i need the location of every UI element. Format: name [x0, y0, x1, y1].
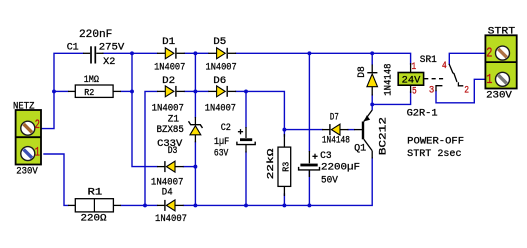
svg-text:1: 1 [35, 144, 40, 159]
diode D2 [157, 86, 185, 97]
svg-text:2: 2 [464, 85, 469, 96]
wire Z1 anode down to node D [194, 142, 196, 167]
relay SR1 mechanical dashed link [424, 78, 443, 80]
wire bottom rail C3 to Q1 collector [309, 158, 372, 205]
svg-text:1N4007: 1N4007 [206, 62, 237, 73]
connector STRT [485, 35, 516, 88]
node C junction top [193, 51, 197, 55]
svg-text:5: 5 [412, 87, 417, 98]
screw terminal NETZ pin2 [21, 121, 35, 135]
wire D2 anode down to bottom rail [145, 91, 157, 205]
screw terminal STRT pin1 [496, 72, 510, 86]
wire C2 node right and down to D7 node [246, 91, 284, 129]
capacitor C3 polarized [299, 151, 320, 177]
wire C1 right to node A [103, 52, 132, 54]
svg-text:4: 4 [442, 61, 447, 72]
diode D7 [322, 124, 349, 135]
label plus sign of C3 [312, 154, 317, 159]
node D bottom junction [193, 203, 197, 207]
svg-text:D6: D6 [213, 76, 226, 87]
node C2 top junction [244, 89, 248, 93]
node D8 top junction [370, 51, 374, 55]
relay SR1 contact terminal pin2 [458, 82, 463, 86]
wire D2 cathode to node C [185, 90, 196, 92]
wire C3 node to D8 node [309, 52, 372, 54]
svg-text:1MΩ: 1MΩ [84, 75, 99, 86]
svg-text:C2: C2 [221, 123, 231, 134]
wire node D down to bottom rail [194, 167, 196, 206]
svg-text:50V: 50V [321, 176, 338, 187]
diode D1 [157, 48, 185, 59]
wire R2 left to left rail [54, 90, 68, 92]
svg-text:275V: 275V [99, 42, 125, 53]
wire C2 minus to bottom rail [245, 152, 247, 205]
svg-text:D5: D5 [213, 37, 226, 48]
wire bottom rail node D to C2 minus [195, 204, 246, 206]
screw terminal NETZ pin1 [21, 147, 35, 161]
svg-text:2200µF: 2200µF [321, 163, 360, 174]
svg-text:BZX85: BZX85 [157, 125, 184, 136]
wire D1 cathode to node C [185, 52, 196, 54]
wire D4 anode to node D bottom [184, 204, 196, 206]
wire R3 bottom to bottom rail [283, 194, 285, 205]
svg-text:R1: R1 [88, 188, 103, 199]
zener diode Z1 [189, 117, 203, 142]
resistor R2 [68, 85, 121, 97]
wire D8 cathode up to top rail [371, 53, 373, 64]
node C3 bottom junction [307, 203, 311, 207]
wire bottom rail C2 to R3 [246, 204, 284, 206]
relay SR1 contact terminal pin3 [436, 86, 442, 92]
wire STRT pin2 to relay contact pin4 [449, 53, 485, 64]
svg-text:POWER-OFF: POWER-OFF [407, 136, 464, 147]
label plus sign of C2 [238, 129, 243, 134]
wire D3 anode to node D [184, 166, 196, 168]
svg-text:D3: D3 [168, 146, 178, 157]
wire C3 top from rail node down to C3 plus [308, 53, 310, 151]
svg-text:2: 2 [35, 117, 40, 132]
wire NETZ pin1 down to R1 [44, 154, 68, 205]
svg-text:1N4007: 1N4007 [152, 104, 184, 115]
svg-text:D8: D8 [357, 66, 368, 78]
wire R1 right to D2 branch node [121, 204, 145, 206]
diode D6 [208, 86, 236, 97]
wire R2 right to node A vertical [121, 90, 132, 92]
node A junction top [130, 51, 134, 55]
node R2 left junction [52, 89, 56, 93]
svg-text:63V: 63V [214, 149, 228, 160]
svg-text:BC212: BC212 [377, 117, 389, 155]
connector NETZ [16, 110, 41, 165]
relay SR1 coil [398, 63, 423, 93]
node C2 bottom junction [244, 203, 248, 207]
wire C3 minus down to bottom rail [308, 171, 310, 206]
node Q1 emitter junction [370, 102, 374, 106]
svg-text:R2: R2 [84, 87, 94, 98]
wire bottom rail to D4 cathode [145, 204, 157, 206]
diode D4 [157, 200, 184, 211]
wire node A to D1 anode [132, 52, 157, 54]
wire top rail to relay coil pin1 [372, 53, 410, 64]
svg-text:G2R-1: G2R-1 [407, 108, 438, 119]
svg-text:STRT: STRT [488, 27, 515, 38]
svg-text:C1: C1 [67, 42, 79, 53]
wire STRT pin1 to relay contact pin3 [436, 79, 485, 103]
svg-text:22kΩ: 22kΩ [265, 148, 276, 179]
node C junction R2 row [193, 89, 197, 93]
screw terminal STRT pin2 [496, 46, 510, 60]
wire relay coil pin5 to Q1 emitter node [372, 92, 410, 104]
wire node C down to Z1 cathode [194, 91, 196, 117]
diode D3 [157, 161, 184, 172]
node D2 branch bottom junction [143, 203, 147, 207]
wire node A vertical down to D3 cathode [132, 53, 157, 166]
svg-text:1N4148: 1N4148 [384, 63, 395, 95]
wire Q1 emitter node up segment [371, 104, 373, 109]
svg-text:D2: D2 [162, 76, 175, 87]
svg-text:24V: 24V [402, 76, 421, 87]
wire bottom rail R3 to C3 [284, 204, 309, 206]
capacitor C2 polarized [237, 127, 255, 153]
wire D5 cathode to C3 node [236, 52, 310, 54]
node C3 top junction [307, 51, 311, 55]
resistor R1 [68, 199, 121, 212]
svg-text:R3: R3 [280, 161, 291, 171]
svg-text:1: 1 [486, 72, 492, 88]
wire D7 node to D7 cathode [284, 129, 322, 131]
svg-text:STRT 2sec: STRT 2sec [407, 149, 461, 160]
svg-text:D1: D1 [162, 37, 175, 48]
wire node C vertical between rows [194, 53, 196, 91]
svg-text:1µF: 1µF [214, 137, 229, 148]
svg-text:3: 3 [429, 86, 434, 97]
wire D7 node down to R3 top [283, 130, 285, 136]
wire node C to D5 anode [195, 52, 208, 54]
relay SR1 contact blade pin4 [449, 64, 457, 82]
wire C2 node down to C2 plus [245, 91, 247, 127]
wire NETZ pin2 up to top rail [41, 53, 83, 128]
svg-text:C3: C3 [320, 151, 332, 162]
diode D5 [208, 48, 236, 59]
svg-text:1: 1 [412, 62, 417, 73]
node D junction D3 row [193, 165, 197, 169]
node R3 bottom junction [282, 203, 286, 207]
wire D8 anode down to Q1 emitter node [371, 95, 373, 104]
svg-text:230V: 230V [16, 166, 38, 177]
svg-text:1N4148: 1N4148 [322, 136, 350, 147]
svg-text:D7: D7 [330, 112, 339, 123]
resistor R3 [278, 134, 291, 196]
svg-text:Q1: Q1 [354, 144, 366, 155]
node D7 R3 junction [282, 128, 286, 132]
wire D7 anode to Q1 base [348, 129, 354, 131]
svg-text:220Ω: 220Ω [81, 214, 107, 225]
svg-text:SR1: SR1 [420, 55, 437, 66]
svg-text:1N4007: 1N4007 [205, 104, 236, 115]
svg-text:1N4007: 1N4007 [154, 62, 185, 73]
svg-text:1N4007: 1N4007 [155, 214, 187, 225]
wire D6 cathode to C2 node [236, 90, 246, 92]
svg-text:D4: D4 [162, 188, 173, 199]
node A junction R2 row [130, 89, 134, 93]
wire node C to D6 anode [195, 90, 208, 92]
svg-text:2: 2 [486, 46, 492, 62]
svg-text:X2: X2 [103, 57, 115, 68]
svg-text:230V: 230V [486, 91, 512, 102]
svg-text:220nF: 220nF [79, 29, 112, 41]
transistor Q1 [354, 110, 372, 159]
capacitor C1 [83, 46, 104, 63]
svg-text:NETZ: NETZ [13, 101, 35, 112]
svg-text:Z1: Z1 [168, 115, 179, 126]
diode D8 [367, 65, 378, 96]
